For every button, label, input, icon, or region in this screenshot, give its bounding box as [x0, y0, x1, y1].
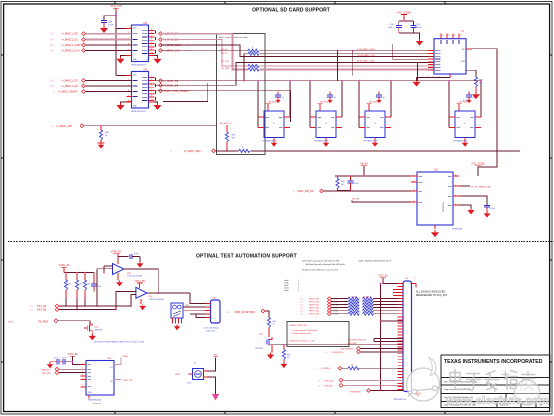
svg-text:PS_RM0: PS_RM0: [38, 320, 49, 323]
svg-text:TPS2051B: TPS2051B: [443, 202, 445, 212]
ground U32 left: [116, 56, 126, 64]
wire bus row D2: [155, 54, 435, 82]
text automation notes: [302, 259, 392, 271]
op-amp U33 bus switch body: [132, 69, 149, 108]
svg-text:WP_B3: WP_B3: [352, 198, 360, 200]
power VCC_B3 bottom: [378, 275, 399, 284]
wire bus row CLK: [161, 50, 435, 52]
wire U34 inputs: [97, 266, 113, 273]
svg-text:TPS2051B: TPS2051B: [452, 229, 463, 231]
ground Q31: [267, 347, 274, 359]
ground U35: [139, 299, 146, 310]
wire PWRLVB3 row: [370, 390, 403, 392]
wire PS_RM0 row: [58, 321, 90, 324]
wire U_OPEN_J: [342, 367, 403, 369]
svg-text:TSTPT_B1: TSTPT_B1: [309, 302, 320, 304]
svg-text:PW_SRX: PW_SRX: [42, 373, 51, 375]
capacitor C64: [91, 273, 102, 292]
resistor series D1: [248, 62, 259, 67]
node SD_D labels in box: [221, 49, 230, 70]
svg-text:'1' = Board power ON (default): '1' = Board power ON (default): [292, 329, 318, 332]
svg-text:PCM_MMC_CMD: PCM_MMC_CMD: [357, 61, 375, 63]
svg-text:VCC_SD1B3: VCC_SD1B3: [471, 164, 485, 166]
wire bus row D1 (pink): [161, 40, 435, 67]
text reference note: [416, 291, 448, 297]
title OPTIONAL SD CARD SUPPORT: [252, 7, 330, 13]
svg-text:U31: U31: [434, 170, 439, 172]
svg-text:SD_CD_SENSE_LED: SD_CD_SENSE_LED: [471, 186, 491, 188]
label U32 part number: [131, 64, 147, 66]
power VB_SD3_B3: [367, 102, 382, 112]
svg-text:13: 13: [460, 35, 462, 37]
wire U35 output: [147, 292, 190, 294]
svg-text:16: 16: [130, 74, 132, 76]
wire PWL_B5: [343, 384, 403, 386]
node TSTPT_B5 row: [300, 312, 403, 316]
ground below R38: [472, 92, 480, 99]
wire esd cell 4 verticals: [448, 80, 482, 128]
ground R45: [280, 362, 287, 368]
svg-text:PCM_MMC_DAT3: PCM_MMC_DAT3: [357, 48, 376, 51]
svg-text:4: 4: [82, 374, 83, 376]
resistor R46: [348, 365, 359, 370]
label U33 part number: [131, 111, 147, 113]
svg-text:S_RSTESTn: S_RSTESTn: [332, 352, 345, 354]
box power note: [287, 322, 349, 347]
svg-text:6: 6: [151, 39, 152, 41]
ground esd cell 1: [271, 138, 277, 147]
transistor array esd cell 1: [258, 111, 290, 138]
wire H_MMC_WP: [84, 125, 217, 127]
ground SD socket: [412, 80, 420, 87]
wire U34 feedback drop: [96, 269, 98, 307]
wire monitor out: [272, 344, 403, 346]
node PS1_D5: [30, 308, 59, 312]
label J31 pin2: [414, 277, 416, 279]
capacitor esd cell 2: [327, 92, 336, 104]
node PW_RESET0: [336, 347, 360, 351]
transistor Q30: [84, 324, 92, 333]
ground J31: [414, 391, 422, 398]
wire SD COM: [466, 70, 476, 77]
capacitor C08: [101, 21, 114, 27]
ground C65: [137, 257, 144, 268]
svg-text:ALL SIGNALS SHOULD BE: ALL SIGNALS SHOULD BE: [416, 291, 445, 294]
svg-text:VB_SDC_B: VB_SDC_B: [220, 123, 232, 125]
svg-text:PS1_D5: PS1_D5: [37, 309, 47, 312]
svg-text:1k: 1k: [273, 324, 275, 326]
svg-text:VCPU_B3: VCPU_B3: [111, 252, 122, 254]
op-amp U32 bus switch body: [132, 23, 149, 62]
svg-text:4: 4: [298, 290, 299, 292]
power VB_SD1_B3: [266, 102, 281, 112]
ground U31 pin4: [459, 205, 475, 214]
ground esd cell 3: [372, 138, 378, 147]
svg-text:16: 16: [130, 27, 132, 29]
svg-text:VCC_B3: VCC_B3: [378, 275, 388, 278]
svg-text:multi meter: multi meter: [206, 329, 216, 332]
capacitor C68: [187, 383, 191, 385]
ground esd cell 4: [462, 138, 468, 147]
svg-text:VCPU_B3: VCPU_B3: [67, 354, 78, 356]
label esd cell 4: [453, 140, 468, 142]
title OPTINAL TEST AUTOMATION SUPPORT: [196, 253, 297, 259]
svg-text:MMC_WP_EN: MMC_WP_EN: [298, 190, 314, 193]
wire PWL_B4: [343, 379, 403, 381]
power VCPU_B3 opamp1: [111, 252, 122, 264]
wire U33 input D3: [85, 85, 131, 87]
svg-text:PW_RESET0: PW_RESET0: [341, 348, 354, 350]
svg-text:111: 111: [300, 308, 303, 310]
svg-text:TSTPT_B0: TSTPT_B0: [309, 299, 320, 301]
svg-text:NOTE:NOTE TCA vxx = 1.8V: NOTE:NOTE TCA vxx = 1.8V: [290, 340, 315, 343]
op-amp U38 transceiver body: [81, 358, 120, 398]
resistor R44 1k: [267, 318, 275, 338]
svg-text:VB3T_RX: VB3T_RX: [123, 380, 133, 382]
wire U33 input D2: [85, 80, 131, 82]
wire PS1_D4 row: [59, 305, 131, 307]
svg-text:R44: R44: [273, 321, 276, 323]
node U_OPEN_J: [316, 366, 342, 370]
svg-text:2: 2: [413, 180, 414, 182]
svg-text:10uF: 10uF: [388, 27, 393, 29]
power VB_SD mid: [360, 164, 368, 176]
svg-text:TSTB5: TSTB5: [333, 314, 338, 316]
resistor series D0: [248, 66, 259, 71]
ground U32 right: [153, 56, 161, 64]
label RN values: [351, 297, 370, 299]
node PCM_MMC_CMD label: [357, 61, 375, 63]
wire U34 output: [124, 269, 159, 294]
svg-text:111: 111: [300, 314, 303, 316]
U36 bottom pins: [173, 318, 182, 330]
svg-text:TSTPT_B5: TSTPT_B5: [309, 314, 320, 316]
svg-text:PWL_B5: PWL_B5: [325, 385, 334, 387]
svg-text:0.1uF: 0.1uF: [62, 358, 66, 360]
svg-text:TSTB4: TSTB4: [333, 311, 338, 313]
svg-text:to Tx of GoPanda: to Tx of GoPanda: [204, 327, 220, 330]
svg-text:H_MMC1_D2: H_MMC1_D2: [62, 79, 79, 83]
wire R39 C62 join: [338, 190, 351, 192]
svg-text:11: 11: [128, 95, 130, 97]
transistor Q31: [255, 333, 272, 350]
wire U32 input D0: [85, 33, 131, 35]
junction on VCC rail: [115, 15, 117, 30]
dashed page separator: [8, 241, 554, 243]
node TSTPT_B4 row: [300, 309, 403, 313]
svg-text:4x10K: 4x10K: [364, 297, 370, 299]
connector J30: [205, 298, 220, 323]
node PW_STX: [42, 367, 86, 371]
svg-text:8: 8: [151, 45, 152, 47]
power VCPU_B3 opamp2: [134, 281, 145, 288]
resistor R38 pulldown: [474, 77, 483, 92]
svg-text:1k: 1k: [287, 357, 289, 359]
power VCC_SD1B3 top: [397, 11, 412, 21]
capacitor C61 0.1uF: [411, 24, 423, 33]
svg-text:REFERENCED TO VCC_3V3: REFERENCED TO VCC_3V3: [416, 295, 448, 297]
svg-text:6: 6: [82, 385, 83, 387]
svg-text:TEXAS INSTRUMENTS INCORPORATED: TEXAS INSTRUMENTS INCORPORATED: [444, 359, 543, 365]
svg-text:0.1uF: 0.1uF: [187, 383, 191, 385]
resistor R39: [336, 176, 346, 191]
svg-text:@TXXXXL PM ISOLATED UNTIL VXYX: @TXXXXL PM ISOLATED UNTIL VXYX, OVV LO C…: [94, 340, 145, 343]
ground Q30: [89, 333, 96, 341]
svg-text:PCM_MMC_CLK: PCM_MMC_CLK: [358, 55, 375, 57]
svg-text:AuTomaTion will ovSensed ToE o: AuTomaTion will ovSensed ToE oSTxxxTo.: [306, 263, 346, 266]
svg-text:U_OPEN_J: U_OPEN_J: [321, 368, 332, 370]
ground U33 right: [153, 102, 161, 110]
svg-text:4x10K: 4x10K: [351, 297, 357, 299]
capacitor esd cell4 value: [463, 100, 469, 102]
power VCC_SD1B3 right: [471, 164, 485, 166]
svg-text:6: 6: [151, 86, 152, 88]
svg-text:TSW-2x637-xx: TSW-2x637-xx: [393, 399, 406, 401]
ground caps xcvr: [47, 362, 53, 368]
svg-text:1: 1: [82, 363, 83, 365]
node TSTPT_B0 row: [300, 297, 403, 301]
power VCPU_B3 xcvr: [67, 354, 86, 364]
node off-page arrow: [212, 394, 219, 401]
svg-text:9: 9: [151, 96, 152, 98]
svg-text:SD_CMD: SD_CMD: [221, 68, 230, 70]
svg-text:8: 8: [151, 92, 152, 94]
U33 pin stubs: [126, 74, 155, 102]
svg-text:SD_D1: SD_D1: [221, 52, 228, 54]
svg-text:VB30: VB30: [123, 356, 129, 358]
wire opto to J30: [183, 293, 205, 318]
node PW_SRX: [42, 371, 86, 375]
svg-text:0: 0: [252, 47, 253, 49]
svg-text:H_MMC_SD2: H_MMC_SD2: [184, 149, 201, 153]
wire esd cell 2 verticals: [309, 80, 343, 128]
svg-text:OPTIONAL SD CARD SUPPORT: OPTIONAL SD CARD SUPPORT: [252, 7, 330, 13]
label U31 part: [452, 229, 463, 231]
svg-text:0: 0: [252, 50, 253, 52]
svg-text:TPLX: TPLX: [8, 321, 14, 323]
wire bus row D3: [155, 62, 435, 85]
svg-text:2p: 2p: [473, 97, 475, 99]
wire drop A: [337, 51, 339, 81]
svg-text:4: 4: [151, 32, 152, 34]
wire drop B: [352, 51, 354, 76]
svg-text:TPD2E001DRLR: TPD2E001DRLR: [453, 140, 468, 142]
text jumper list: [284, 279, 299, 292]
svg-text:3: 3: [151, 29, 152, 31]
svg-text:3: 3: [151, 76, 152, 78]
node H_MMC1 input labels lower: [50, 79, 85, 94]
svg-text:H_MMC1_CMD: H_MMC1_CMD: [62, 43, 81, 47]
wire U33 input SDWP: [85, 91, 131, 93]
capacitor C60 10uF: [388, 24, 402, 33]
wire drop C: [393, 44, 434, 59]
svg-text:10: 10: [151, 99, 153, 101]
svg-text:TPD2E001DRLR: TPD2E001DRLR: [314, 140, 329, 142]
ground U34: [116, 273, 123, 286]
wire VCC rail: [115, 11, 117, 76]
label J31 part: [393, 399, 406, 401]
capacitor C65: [118, 253, 140, 259]
svg-text:U32: U32: [143, 23, 148, 25]
ground esd cell 2: [323, 138, 329, 147]
node PWRLVB3 label: [350, 389, 370, 394]
wire PWR_MONITOR0: [265, 311, 269, 318]
svg-text:5: 5: [151, 35, 152, 37]
wire bus row STRAP: [155, 91, 291, 122]
svg-text:CSD1338: CSD1338: [255, 348, 263, 350]
wire row 320: [381, 320, 404, 322]
svg-text:VB_SD: VB_SD: [360, 164, 368, 166]
capacitor esd cell 1: [275, 92, 284, 104]
svg-text:111: 111: [300, 299, 303, 301]
svg-text:TSTPT_B2: TSTPT_B2: [309, 305, 320, 307]
wire esd cell 1 verticals: [257, 80, 291, 128]
node PCM_MMC_DAT3 label: [337, 48, 376, 52]
transistor Y3 oscillator: [189, 369, 208, 380]
label esd cell 1: [262, 140, 277, 142]
svg-text:10k: 10k: [68, 284, 71, 286]
op-amp U34: [113, 264, 125, 275]
svg-text:PW_SEQ_PW3_UP: PW_SEQ_PW3_UP: [348, 339, 367, 341]
svg-text:1k: 1k: [105, 135, 107, 137]
wire U32 input D1: [85, 39, 131, 41]
svg-text:2p: 2p: [383, 97, 385, 99]
svg-text:4: 4: [413, 200, 414, 202]
ground C63: [484, 212, 491, 218]
svg-text:5: 5: [82, 378, 83, 380]
label U38 part: [88, 399, 102, 404]
svg-text:TSTPT_B3: TSTPT_B3: [309, 308, 320, 310]
svg-text:SN74CBT3257C: SN74CBT3257C: [131, 64, 147, 66]
op-amp U31 power switch body: [411, 170, 459, 229]
svg-text:PW_SW0: PW_SW0: [348, 343, 358, 345]
wire PW_SEQ rows: [374, 339, 403, 342]
capacitor C63: [484, 205, 496, 211]
svg-text:1: 1: [413, 174, 414, 176]
watermark elecfans logo: [407, 358, 549, 407]
wire U31 OC: [459, 196, 487, 205]
svg-text:oSTmxxT xooT oSTTrxCx, vxx ile: oSTmxxT xooT oSTTrxCx, vxx ile xx/xx: [302, 268, 339, 271]
node TSTPT_B2 row: [300, 303, 403, 307]
wire U35 minus input: [130, 295, 136, 307]
svg-text:TSTPT_B4: TSTPT_B4: [309, 311, 320, 313]
svg-text:VCC_SD1B3: VCC_SD1B3: [397, 11, 412, 14]
power VCC_3V3: [110, 4, 122, 11]
node TSTPT_B3 row: [300, 306, 403, 310]
power VCPU_2S: [59, 264, 70, 273]
svg-text:TSTB0: TSTB0: [333, 298, 338, 300]
svg-text:VCPU_B3: VCPU_B3: [134, 281, 145, 283]
svg-text:4: 4: [151, 79, 152, 81]
svg-text:SSD-NF5: SSD-NF5: [95, 329, 103, 331]
resistor R35 4.7k: [225, 125, 236, 151]
resistor series SD2: [239, 147, 250, 152]
node PWL_B5: [318, 384, 343, 388]
text isolation note: [94, 340, 145, 343]
svg-text:'0' = Board power OFF: '0' = Board power OFF: [292, 332, 312, 335]
svg-text:111: 111: [300, 311, 303, 313]
node VB3T label: [175, 374, 181, 376]
transistor array esd cell 4: [449, 111, 481, 138]
svg-text:SN74CBT3257C: SN74CBT3257C: [131, 111, 147, 113]
svg-text:H_MMC_WP: H_MMC_WP: [57, 124, 73, 128]
svg-text:2p: 2p: [282, 97, 284, 99]
wire SD WP net: [472, 49, 497, 176]
wire MMC_WP_EN: [323, 190, 417, 192]
svg-text:stmt4: stmt4: [284, 289, 288, 292]
svg-text:7: 7: [151, 42, 152, 44]
svg-text:ref xxx xxx: ref xxx xxx: [93, 402, 101, 405]
capacitor esd cell 3: [376, 92, 385, 104]
svg-text:12: 12: [454, 35, 456, 37]
wire bus row D0 (pink): [161, 34, 435, 70]
svg-text:9: 9: [151, 49, 152, 51]
svg-text:111: 111: [300, 302, 303, 304]
svg-text:0: 0: [242, 147, 243, 149]
node PWR_MONITOR0: [226, 309, 265, 314]
svg-text:PW_STX: PW_STX: [42, 369, 51, 371]
svg-text:www.elecfans.com: www.elecfans.com: [445, 395, 549, 407]
wire drop D: [417, 62, 419, 80]
ground below C08: [100, 26, 108, 33]
junction SD2 row: [226, 150, 228, 152]
capacitor C66 C67: [51, 358, 73, 365]
wire SD gnd: [417, 78, 451, 80]
node PCM_MMC_CLK label: [358, 55, 375, 57]
svg-text:10: 10: [151, 52, 153, 54]
node S_RSTESTn: [325, 350, 360, 354]
svg-text:H_MMC1_D0: H_MMC1_D0: [62, 32, 79, 36]
svg-text:TSTB3: TSTB3: [333, 307, 338, 309]
svg-text:9: 9: [451, 76, 452, 78]
title block: [441, 355, 550, 408]
svg-text:10: 10: [442, 35, 444, 37]
svg-text:VB3T: VB3T: [175, 374, 181, 376]
connector J31 header: [398, 278, 417, 391]
svg-text:0.1uF: 0.1uF: [54, 358, 58, 360]
wire divider drops: [65, 298, 86, 310]
svg-text:TLV271-0-DCKR: TLV271-0-DCKR: [127, 276, 143, 278]
capacitor esd cell 4: [466, 92, 475, 104]
node PW_SEQ labels: [348, 339, 367, 345]
svg-text:0: 0: [252, 66, 253, 68]
wire J31 short rows: [393, 290, 403, 296]
label esd cell 3: [363, 140, 378, 142]
wire U35 plus input: [115, 292, 136, 311]
ground U31: [431, 230, 439, 237]
power VB3 osc: [213, 355, 218, 357]
ground caps: [416, 39, 423, 46]
svg-text:VCPU_2S: VCPU_2S: [59, 264, 70, 267]
resistor R36 1k: [99, 126, 109, 143]
svg-text:built in series resistors to h: built in series resistors to handle: [219, 36, 248, 39]
node MMC_WP_EN: [293, 189, 323, 193]
svg-text:1M: 1M: [479, 83, 482, 85]
svg-text:5: 5: [455, 203, 456, 205]
svg-text:TSTB1: TSTB1: [333, 301, 338, 303]
svg-text:TSTB2: TSTB2: [333, 304, 338, 306]
svg-text:0.1uF: 0.1uF: [490, 208, 496, 210]
wire bus row CMD: [161, 45, 435, 57]
node H_MMC1 input labels: [50, 32, 85, 53]
node WP_B3 label: [352, 198, 360, 200]
transistor array esd cell 2: [310, 111, 342, 138]
svg-text:U33: U33: [143, 69, 148, 71]
wire osc out: [207, 377, 216, 394]
power VB_SD4_B3: [457, 102, 472, 112]
svg-text:PM ADC PWR OFF: PM ADC PWR OFF: [290, 324, 308, 327]
wire caps join: [399, 33, 420, 39]
